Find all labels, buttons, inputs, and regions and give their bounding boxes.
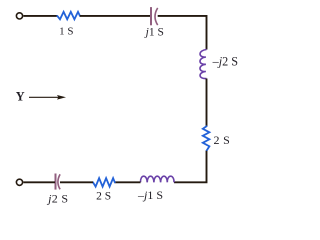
capacitor j1 S	[151, 7, 158, 25]
arrow admittance direction	[29, 95, 66, 100]
inductor -j1 S	[140, 176, 174, 182]
svg-text:Y: Y	[16, 89, 25, 103]
resistor 2 S bottom	[93, 178, 115, 187]
svg-text:j1 S: j1 S	[144, 27, 164, 39]
svg-text:2 S: 2 S	[96, 191, 111, 203]
terminal T2 bottom-left	[16, 179, 22, 185]
resistor 2 S right	[203, 126, 210, 150]
capacitor j2 S	[56, 174, 61, 190]
wire bottom-right corner	[174, 151, 207, 183]
wire top-right corner	[158, 16, 207, 50]
svg-text:–j2 S: –j2 S	[212, 55, 239, 69]
svg-text:–j1 S: –j1 S	[137, 188, 163, 202]
wire bottom middle-left	[60, 181, 93, 183]
terminal T1 top-left	[16, 13, 22, 19]
resistor 1 S	[57, 12, 80, 19]
wire top-left segment	[23, 15, 57, 17]
inductor -j2 S	[200, 50, 207, 79]
wire top middle	[80, 15, 150, 17]
svg-text:j2 S: j2 S	[46, 192, 68, 206]
svg-text:1 S: 1 S	[59, 26, 73, 38]
svg-text:2 S: 2 S	[214, 133, 231, 147]
wire right middle	[206, 79, 208, 127]
wire bottom middle-right	[115, 181, 141, 183]
wire bottom-left segment	[23, 181, 55, 183]
